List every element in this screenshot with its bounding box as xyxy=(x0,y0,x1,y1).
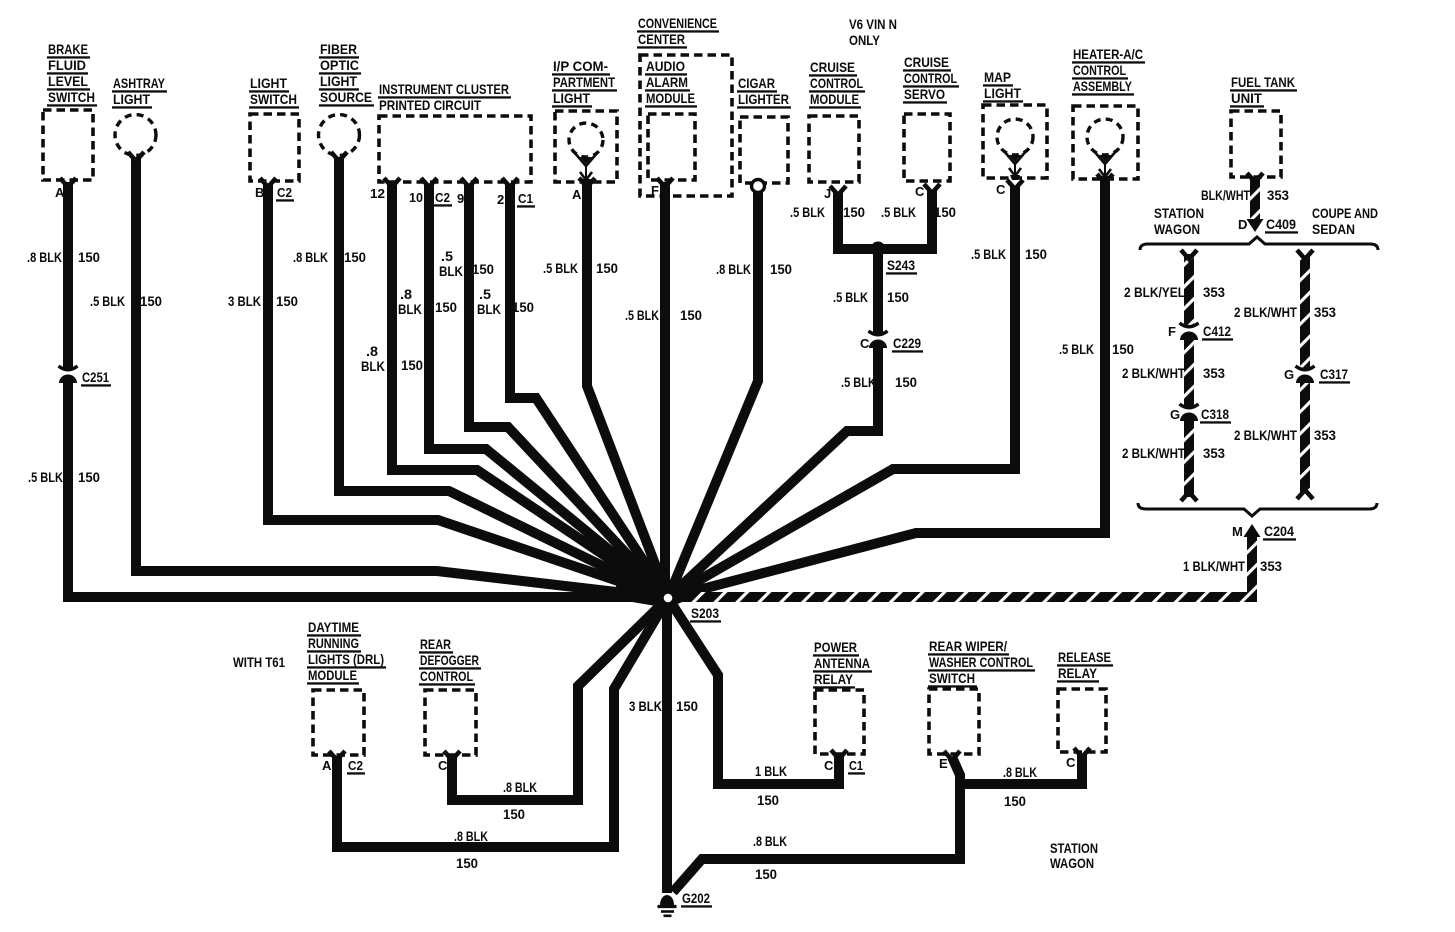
svg-text:SWITCH: SWITCH xyxy=(48,89,95,105)
svg-text:.8 BLK: .8 BLK xyxy=(1003,764,1037,780)
svg-text:.8 BLK: .8 BLK xyxy=(503,779,537,795)
svg-text:BLK: BLK xyxy=(361,358,385,374)
svg-text:SOURCE: SOURCE xyxy=(320,89,372,105)
svg-text:.8: .8 xyxy=(366,343,378,359)
svg-text:C409: C409 xyxy=(1266,216,1296,232)
svg-text:RUNNING: RUNNING xyxy=(308,635,359,651)
svg-text:C251: C251 xyxy=(82,369,109,385)
svg-text:150: 150 xyxy=(401,357,423,373)
svg-text:150: 150 xyxy=(503,806,525,822)
svg-text:C204: C204 xyxy=(1264,523,1294,539)
svg-text:150: 150 xyxy=(676,698,698,714)
svg-text:RELAY: RELAY xyxy=(814,671,854,687)
svg-text:COUPE AND: COUPE AND xyxy=(1312,205,1378,221)
svg-text:A: A xyxy=(322,758,332,773)
svg-text:A: A xyxy=(55,185,65,200)
svg-text:FUEL TANK: FUEL TANK xyxy=(1231,74,1295,90)
svg-text:CONTROL: CONTROL xyxy=(904,70,957,86)
svg-text:DAYTIME: DAYTIME xyxy=(308,619,359,635)
svg-text:M: M xyxy=(1232,524,1243,539)
svg-text:.8: .8 xyxy=(400,286,412,302)
svg-text:A: A xyxy=(572,187,582,202)
svg-text:CONTROL: CONTROL xyxy=(1073,62,1126,78)
svg-text:SWITCH: SWITCH xyxy=(250,91,297,107)
svg-text:S243: S243 xyxy=(887,257,915,273)
svg-text:.5 BLK: .5 BLK xyxy=(833,289,868,305)
svg-text:.5 BLK: .5 BLK xyxy=(90,293,125,309)
svg-text:BLK: BLK xyxy=(439,263,463,279)
svg-text:G: G xyxy=(1284,367,1294,382)
svg-text:2 BLK/WHT: 2 BLK/WHT xyxy=(1122,445,1185,461)
svg-text:WITH T61: WITH T61 xyxy=(233,654,285,670)
svg-text:.5 BLK: .5 BLK xyxy=(543,260,578,276)
svg-text:G: G xyxy=(1170,407,1180,422)
svg-text:MAP: MAP xyxy=(984,69,1011,85)
svg-text:150: 150 xyxy=(435,299,457,315)
svg-text:OPTIC: OPTIC xyxy=(320,57,359,73)
svg-text:C2: C2 xyxy=(435,190,450,205)
svg-text:150: 150 xyxy=(456,855,478,871)
svg-text:C412: C412 xyxy=(1203,323,1231,339)
svg-text:.5 BLK: .5 BLK xyxy=(28,469,63,485)
svg-text:RELEASE: RELEASE xyxy=(1058,649,1111,665)
svg-text:CRUISE: CRUISE xyxy=(904,54,949,70)
svg-text:2 BLK/WHT: 2 BLK/WHT xyxy=(1234,304,1297,320)
svg-text:REAR: REAR xyxy=(420,636,451,652)
svg-text:C229: C229 xyxy=(893,335,921,351)
svg-text:CONTROL: CONTROL xyxy=(810,75,863,91)
svg-text:STATION: STATION xyxy=(1154,205,1204,221)
svg-text:150: 150 xyxy=(934,204,956,220)
svg-text:POWER: POWER xyxy=(814,639,857,655)
svg-text:150: 150 xyxy=(140,293,162,309)
svg-text:SEDAN: SEDAN xyxy=(1312,221,1355,237)
svg-text:C317: C317 xyxy=(1320,366,1348,382)
svg-text:BLK/WHT: BLK/WHT xyxy=(1201,187,1250,203)
svg-text:.8 BLK: .8 BLK xyxy=(293,249,328,265)
svg-text:E: E xyxy=(939,756,948,771)
svg-text:LIGHT: LIGHT xyxy=(984,85,1021,101)
svg-text:LIGHT: LIGHT xyxy=(113,91,150,107)
svg-text:CONVENIENCE: CONVENIENCE xyxy=(638,15,717,31)
svg-text:LIGHTS (DRL): LIGHTS (DRL) xyxy=(308,651,384,667)
svg-text:150: 150 xyxy=(78,469,100,485)
svg-text:C: C xyxy=(996,182,1006,197)
svg-text:2: 2 xyxy=(497,192,504,207)
svg-text:150: 150 xyxy=(895,374,917,390)
svg-text:V6 VIN N: V6 VIN N xyxy=(849,16,897,32)
svg-text:ONLY: ONLY xyxy=(849,32,881,48)
svg-text:150: 150 xyxy=(78,249,100,265)
svg-text:2 BLK/YEL: 2 BLK/YEL xyxy=(1124,284,1185,300)
svg-text:ANTENNA: ANTENNA xyxy=(814,655,870,671)
svg-text:CONTROL: CONTROL xyxy=(420,668,473,684)
svg-text:MODULE: MODULE xyxy=(810,91,859,107)
svg-text:.5: .5 xyxy=(479,286,491,302)
svg-text:2 BLK/WHT: 2 BLK/WHT xyxy=(1122,365,1185,381)
svg-text:150: 150 xyxy=(512,299,534,315)
svg-text:12: 12 xyxy=(370,186,385,201)
svg-text:C318: C318 xyxy=(1201,406,1229,422)
svg-text:LEVEL: LEVEL xyxy=(48,73,88,89)
svg-text:.5 BLK: .5 BLK xyxy=(790,204,825,220)
svg-text:353: 353 xyxy=(1267,187,1289,203)
svg-text:AUDIO: AUDIO xyxy=(646,58,685,74)
svg-text:MODULE: MODULE xyxy=(646,90,695,106)
svg-text:C1: C1 xyxy=(518,191,533,206)
svg-text:150: 150 xyxy=(755,866,777,882)
svg-text:C: C xyxy=(824,758,834,773)
svg-text:150: 150 xyxy=(1112,341,1134,357)
svg-text:WAGON: WAGON xyxy=(1154,221,1200,237)
svg-text:ASHTRAY: ASHTRAY xyxy=(113,75,166,91)
svg-text:LIGHT: LIGHT xyxy=(320,73,357,89)
svg-text:150: 150 xyxy=(1004,793,1026,809)
svg-text:WASHER CONTROL: WASHER CONTROL xyxy=(929,654,1033,670)
svg-text:150: 150 xyxy=(680,307,702,323)
svg-text:353: 353 xyxy=(1314,427,1336,443)
svg-text:BRAKE: BRAKE xyxy=(48,41,88,57)
svg-text:353: 353 xyxy=(1314,304,1336,320)
svg-text:C1: C1 xyxy=(849,758,863,773)
svg-text:I/P COM-: I/P COM- xyxy=(553,58,608,74)
svg-text:WAGON: WAGON xyxy=(1050,855,1094,871)
svg-text:INSTRUMENT CLUSTER: INSTRUMENT CLUSTER xyxy=(379,81,509,97)
svg-text:353: 353 xyxy=(1260,558,1282,574)
svg-text:150: 150 xyxy=(472,261,494,277)
svg-text:1 BLK/WHT: 1 BLK/WHT xyxy=(1183,558,1245,574)
svg-text:STATION: STATION xyxy=(1050,840,1098,856)
svg-text:.8 BLK: .8 BLK xyxy=(454,828,488,844)
svg-text:.5 BLK: .5 BLK xyxy=(881,204,916,220)
svg-text:HEATER-A/C: HEATER-A/C xyxy=(1073,46,1143,62)
svg-text:LIGHT: LIGHT xyxy=(553,90,590,106)
svg-text:353: 353 xyxy=(1203,445,1225,461)
svg-text:DEFOGGER: DEFOGGER xyxy=(420,652,479,668)
svg-text:150: 150 xyxy=(1025,246,1047,262)
svg-text:CENTER: CENTER xyxy=(638,31,685,47)
svg-text:S203: S203 xyxy=(691,605,719,621)
svg-text:353: 353 xyxy=(1203,365,1225,381)
svg-text:150: 150 xyxy=(596,260,618,276)
svg-text:.5 BLK: .5 BLK xyxy=(971,246,1006,262)
svg-text:LIGHTER: LIGHTER xyxy=(738,91,789,107)
svg-text:FIBER: FIBER xyxy=(320,41,357,57)
svg-text:FLUID: FLUID xyxy=(48,57,86,73)
svg-text:10: 10 xyxy=(409,190,423,205)
svg-text:150: 150 xyxy=(276,293,298,309)
svg-text:D: D xyxy=(1238,217,1247,232)
svg-text:C: C xyxy=(438,758,448,773)
svg-text:150: 150 xyxy=(887,289,909,305)
svg-text:J: J xyxy=(824,186,831,201)
svg-text:3 BLK: 3 BLK xyxy=(629,698,662,714)
svg-text:.5 BLK: .5 BLK xyxy=(625,307,659,323)
svg-text:C: C xyxy=(860,336,870,351)
svg-text:ASSEMBLY: ASSEMBLY xyxy=(1073,78,1132,94)
svg-text:MODULE: MODULE xyxy=(308,667,357,683)
svg-text:.5 BLK: .5 BLK xyxy=(1059,341,1094,357)
svg-text:150: 150 xyxy=(757,792,779,808)
svg-text:UNIT: UNIT xyxy=(1231,90,1262,106)
svg-text:150: 150 xyxy=(344,249,366,265)
svg-text:F: F xyxy=(1168,324,1176,339)
svg-text:150: 150 xyxy=(843,204,865,220)
svg-text:C2: C2 xyxy=(348,758,363,773)
svg-text:BLK: BLK xyxy=(477,301,501,317)
svg-text:G202: G202 xyxy=(682,890,710,906)
svg-text:LIGHT: LIGHT xyxy=(250,75,287,91)
svg-text:.8 BLK: .8 BLK xyxy=(716,261,751,277)
svg-text:ALARM: ALARM xyxy=(646,74,688,90)
svg-text:C: C xyxy=(915,184,925,199)
svg-text:PRINTED CIRCUIT: PRINTED CIRCUIT xyxy=(379,97,481,113)
svg-text:SWITCH: SWITCH xyxy=(929,670,975,686)
svg-text:C: C xyxy=(1066,755,1076,770)
svg-text:3 BLK: 3 BLK xyxy=(228,293,261,309)
svg-text:.8 BLK: .8 BLK xyxy=(27,249,62,265)
svg-text:353: 353 xyxy=(1203,284,1225,300)
svg-text:REAR WIPER/: REAR WIPER/ xyxy=(929,638,1007,654)
svg-text:.8 BLK: .8 BLK xyxy=(753,833,787,849)
svg-text:SERVO: SERVO xyxy=(904,86,945,102)
svg-text:BLK: BLK xyxy=(398,301,422,317)
svg-text:9: 9 xyxy=(457,191,464,206)
svg-text:.5: .5 xyxy=(441,248,453,264)
svg-text:F: F xyxy=(651,183,659,198)
svg-text:CIGAR: CIGAR xyxy=(738,75,775,91)
svg-text:C2: C2 xyxy=(277,185,292,200)
svg-text:2 BLK/WHT: 2 BLK/WHT xyxy=(1234,427,1297,443)
svg-text:1 BLK: 1 BLK xyxy=(755,763,787,779)
svg-text:RELAY: RELAY xyxy=(1058,665,1098,681)
svg-text:.5 BLK: .5 BLK xyxy=(841,374,876,390)
svg-text:PARTMENT: PARTMENT xyxy=(553,74,615,90)
svg-text:CRUISE: CRUISE xyxy=(810,59,855,75)
svg-text:B: B xyxy=(255,185,264,200)
svg-text:150: 150 xyxy=(770,261,792,277)
